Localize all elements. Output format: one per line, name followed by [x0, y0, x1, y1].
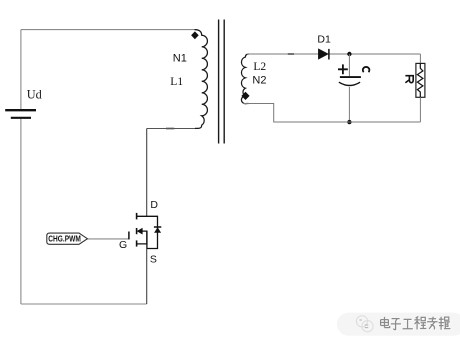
svg-text:N2: N2 [252, 75, 266, 87]
wire primary bottom [147, 128, 198, 130]
svg-text:D1: D1 [317, 33, 331, 45]
label G [119, 239, 127, 251]
capacitor C [338, 64, 361, 85]
label N1 [173, 53, 187, 65]
wire drain [146, 129, 148, 217]
wire left upper (Ud top) [20, 30, 22, 110]
wire left lower (Ud bottom) [20, 119, 22, 304]
wire source to bottom rail [146, 249, 148, 305]
label D [150, 199, 158, 211]
watermark text 电子工程专辑 [381, 317, 452, 331]
wire capacitor top lead [348, 54, 350, 76]
svg-text:S: S [150, 253, 157, 265]
wire secondary top rail [247, 53, 420, 55]
label N2 [252, 75, 266, 87]
svg-text:N1: N1 [173, 53, 187, 65]
label L1 [170, 76, 183, 88]
label D1 [317, 33, 331, 45]
svg-text:L2: L2 [253, 61, 266, 73]
resistor R [416, 63, 425, 97]
node junction top [347, 52, 351, 56]
transformer primary winding [195, 30, 208, 129]
wire secondary bottom [244, 104, 421, 123]
diode D1 [318, 49, 329, 60]
watermark logo icon [356, 316, 373, 332]
label Ud [27, 87, 42, 101]
wire gate [87, 238, 128, 240]
polarity dot secondary [241, 92, 249, 100]
transformer core [219, 20, 225, 144]
svg-text:L1: L1 [170, 76, 183, 88]
label C [363, 67, 370, 72]
net flag CHG.PWM [47, 233, 88, 244]
wire bottom rail primary [21, 303, 147, 305]
battery Ud [5, 110, 36, 118]
watermark pill [337, 313, 460, 336]
wire top rail primary [21, 29, 198, 31]
wire tick on primary bottom [166, 128, 174, 130]
wire capacitor bottom lead [348, 87, 350, 122]
svg-text:G: G [119, 239, 127, 251]
svg-text:Ud: Ud [27, 87, 42, 101]
label R [405, 76, 413, 83]
transistor Q1 MOSFET [129, 213, 161, 249]
wire resistor bottom lead [419, 97, 421, 122]
label L2 [253, 61, 266, 73]
svg-text:D: D [150, 199, 158, 211]
node junction bottom [347, 120, 351, 124]
transformer secondary winding [241, 54, 249, 104]
label S [150, 253, 157, 265]
wire resistor top lead [419, 54, 421, 63]
svg-text:CHG.PWM: CHG.PWM [48, 234, 81, 243]
wire tick on secondary rail [288, 53, 294, 55]
polarity dot primary [191, 31, 199, 39]
